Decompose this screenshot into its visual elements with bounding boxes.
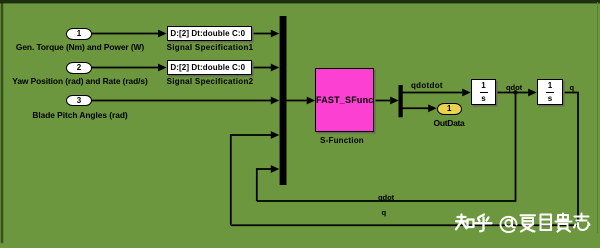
arrowhead into mux from port3: [271, 97, 280, 105]
block Signal Specification2: [167, 60, 253, 75]
label OutData: [369, 119, 529, 128]
mux bar: [280, 16, 287, 185]
wire Integrator1 to Integrator2 (qdot): [496, 92, 530, 94]
inport 3 label: [0, 111, 160, 119]
wire port2 to SignalSpec2: [92, 67, 160, 69]
wire SignalSpec1 to mux: [252, 33, 272, 35]
arrowhead into mux from SignalSpec2: [271, 64, 280, 72]
arrowhead into Integrator2: [528, 89, 537, 97]
demux bar: [399, 85, 403, 117]
wire mux to S-Function: [286, 100, 309, 102]
label qdot (feedback): [378, 194, 394, 202]
wire qdot feedback into mux: [257, 169, 272, 201]
label S-Function: [262, 137, 422, 145]
arrowhead into OutData: [428, 104, 437, 112]
junction dot qdot branch: [513, 90, 517, 94]
label q (feedback): [382, 209, 387, 217]
integrator 1 fraction: [471, 82, 496, 90]
wire qdot feedback down and left: [257, 93, 516, 202]
glyph gui: [556, 214, 572, 232]
inport 1 label: [0, 43, 160, 51]
right window edge: [597, 2, 598, 233]
arrowhead into SignalSpec1: [158, 30, 167, 38]
integrator 2: [537, 79, 563, 105]
glyph hu: [476, 215, 492, 232]
glyph zhi1: [456, 215, 474, 230]
outport OutData: [437, 103, 462, 115]
left window border: [1, 2, 3, 243]
wire Integrator2 output q and feedback: [231, 93, 578, 226]
arrowhead into mux from qdot feedback: [271, 165, 280, 173]
label qdot (top): [506, 84, 522, 92]
wire port3 to mux: [92, 100, 272, 102]
label Signal Specification1: [130, 44, 290, 52]
arrowhead into mux from SignalSpec1: [271, 30, 280, 38]
inport 3: [66, 95, 92, 107]
wire S-Function to demux: [374, 100, 392, 102]
label q (top): [570, 84, 575, 92]
arrowhead into SignalSpec2: [158, 64, 167, 72]
label qdotdot: [411, 82, 443, 90]
top window border: [0, 0, 600, 3]
wire SignalSpec2 to mux: [252, 67, 272, 69]
label Signal Specification2: [130, 78, 290, 86]
glyph mu: [541, 215, 552, 231]
wire demux to OutData: [403, 107, 431, 109]
arrowhead into mux from q feedback: [271, 131, 280, 139]
arrowhead into S-Function: [307, 97, 316, 105]
block Signal Specification1: [167, 26, 253, 41]
glyph @: [501, 217, 517, 232]
arrowhead into demux: [390, 97, 399, 105]
S-Function block FAST_SFunc: [315, 68, 374, 132]
integrator 1: [471, 79, 496, 105]
wire port1 to SignalSpec1: [92, 33, 160, 35]
integrator 2 fraction: [537, 82, 563, 90]
arrowhead into Integrator1: [462, 89, 471, 97]
glyph xia: [521, 215, 536, 231]
inport 2: [66, 62, 92, 74]
inport 2 label: [0, 77, 160, 85]
inport 1: [66, 28, 92, 40]
glyph zhi4: [574, 214, 590, 231]
wire demux to Integrator1 (qdotdot): [403, 92, 465, 94]
wire q feedback into mux: [231, 135, 272, 225]
